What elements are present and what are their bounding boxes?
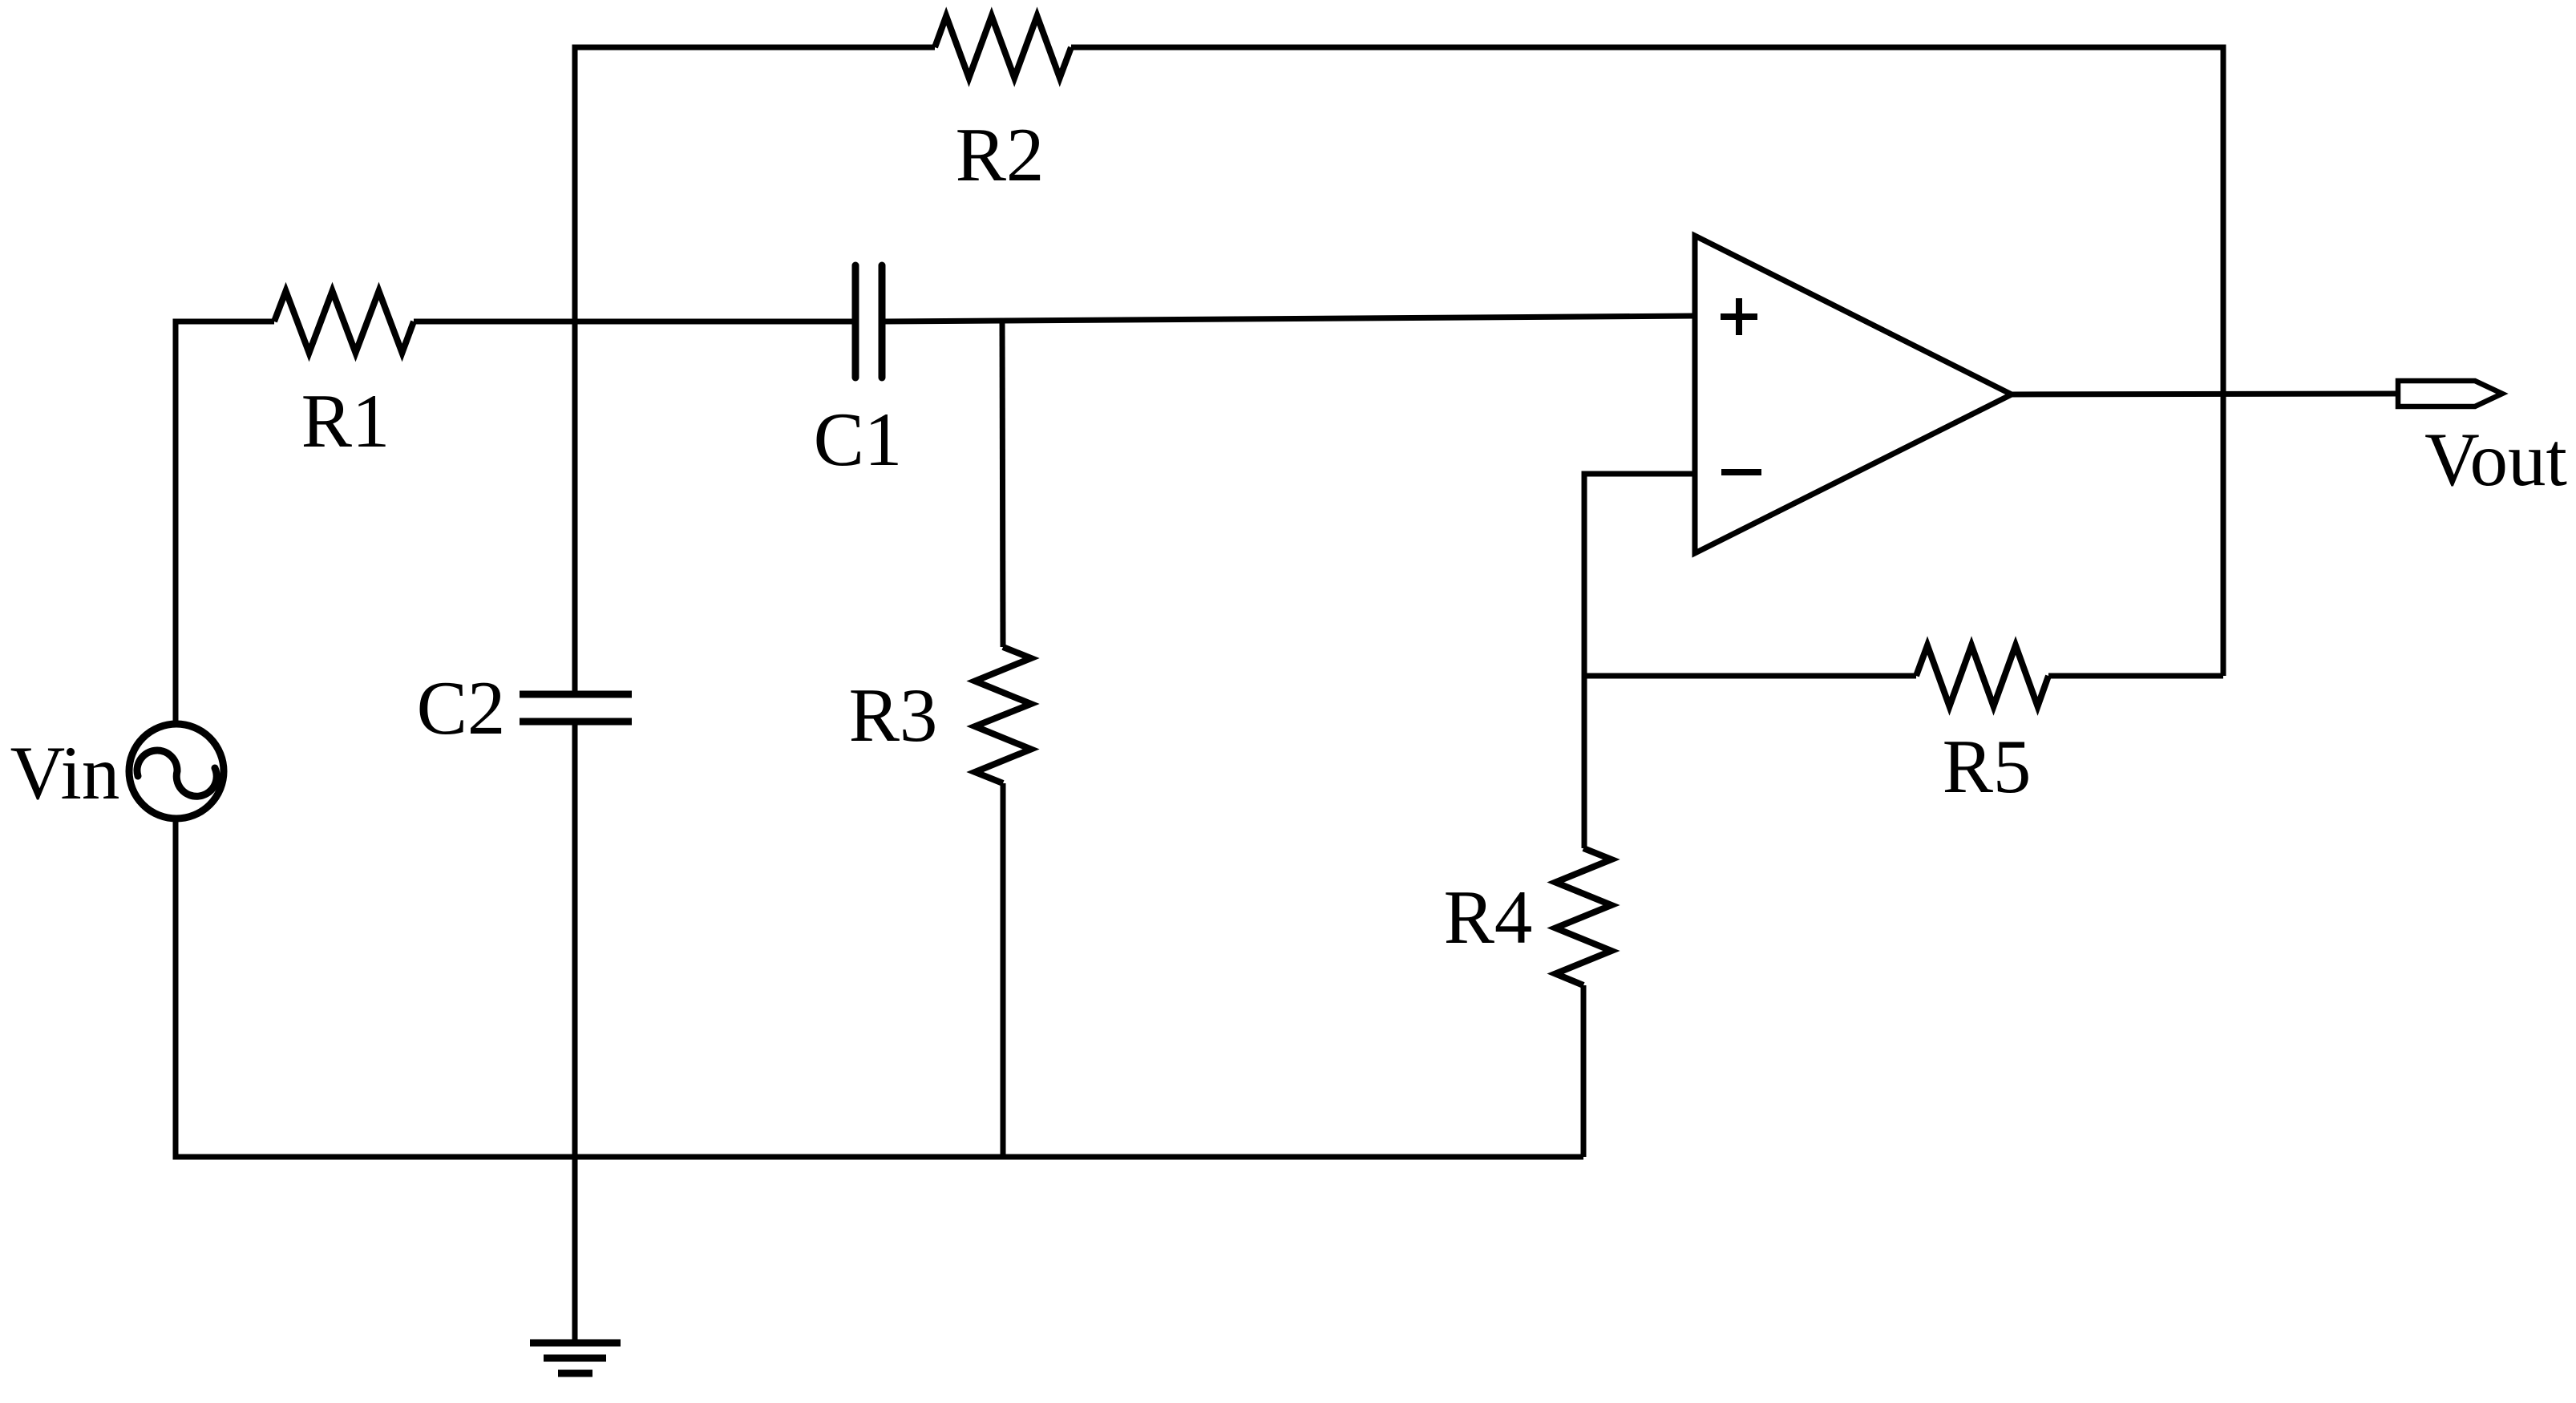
- resistor R4: [1555, 848, 1612, 985]
- wire R3 to bottom rail: [1001, 783, 1006, 1157]
- svg-text:R1: R1: [301, 378, 390, 463]
- wire R4 to bottom rail: [1581, 985, 1587, 1157]
- resistor R5: [1916, 645, 2048, 706]
- wire inverting input: [1584, 474, 1695, 848]
- resistor R1: [274, 291, 414, 353]
- wire top horizontal left segment: [575, 47, 935, 694]
- svg-text:Vout: Vout: [2424, 417, 2567, 502]
- capacitor C2: [520, 694, 632, 722]
- svg-text:R4: R4: [1444, 875, 1533, 960]
- op-amp U1: [1695, 236, 2012, 553]
- svg-text:C2: C2: [417, 665, 506, 750]
- svg-text:R2: R2: [956, 112, 1045, 197]
- resistor R2: [935, 16, 1071, 78]
- svg-text:C1: C1: [814, 397, 903, 482]
- capacitor C1: [855, 265, 882, 378]
- op-amp minus sign: [1721, 469, 1761, 475]
- svg-text:R5: R5: [1943, 724, 2032, 809]
- wire op-amp output: [2012, 394, 2398, 394]
- wire R5 to output node: [2048, 673, 2223, 679]
- ground: [530, 1343, 621, 1373]
- wire inverting node to R5: [1584, 673, 1916, 679]
- voltage source Vin circle: [129, 724, 224, 819]
- svg-text:Vin: Vin: [10, 730, 120, 815]
- wire left vertical lower: [176, 819, 1583, 1157]
- output pin Vout: [2398, 381, 2502, 406]
- wire top horizontal right segment: [1071, 47, 2223, 676]
- wire C2 to ground: [572, 722, 578, 1343]
- wire input row to C1: [414, 319, 855, 325]
- sine symbol inside Vin: [137, 750, 216, 796]
- op-amp plus sign: [1721, 298, 1757, 335]
- svg-text:R3: R3: [849, 673, 938, 758]
- wire left vertical upper: [176, 321, 274, 726]
- resistor R3: [975, 647, 1031, 783]
- wire R3 branch vertical upper: [1002, 321, 1003, 647]
- wire C1 to op-amp noninverting input: [882, 316, 1695, 321]
